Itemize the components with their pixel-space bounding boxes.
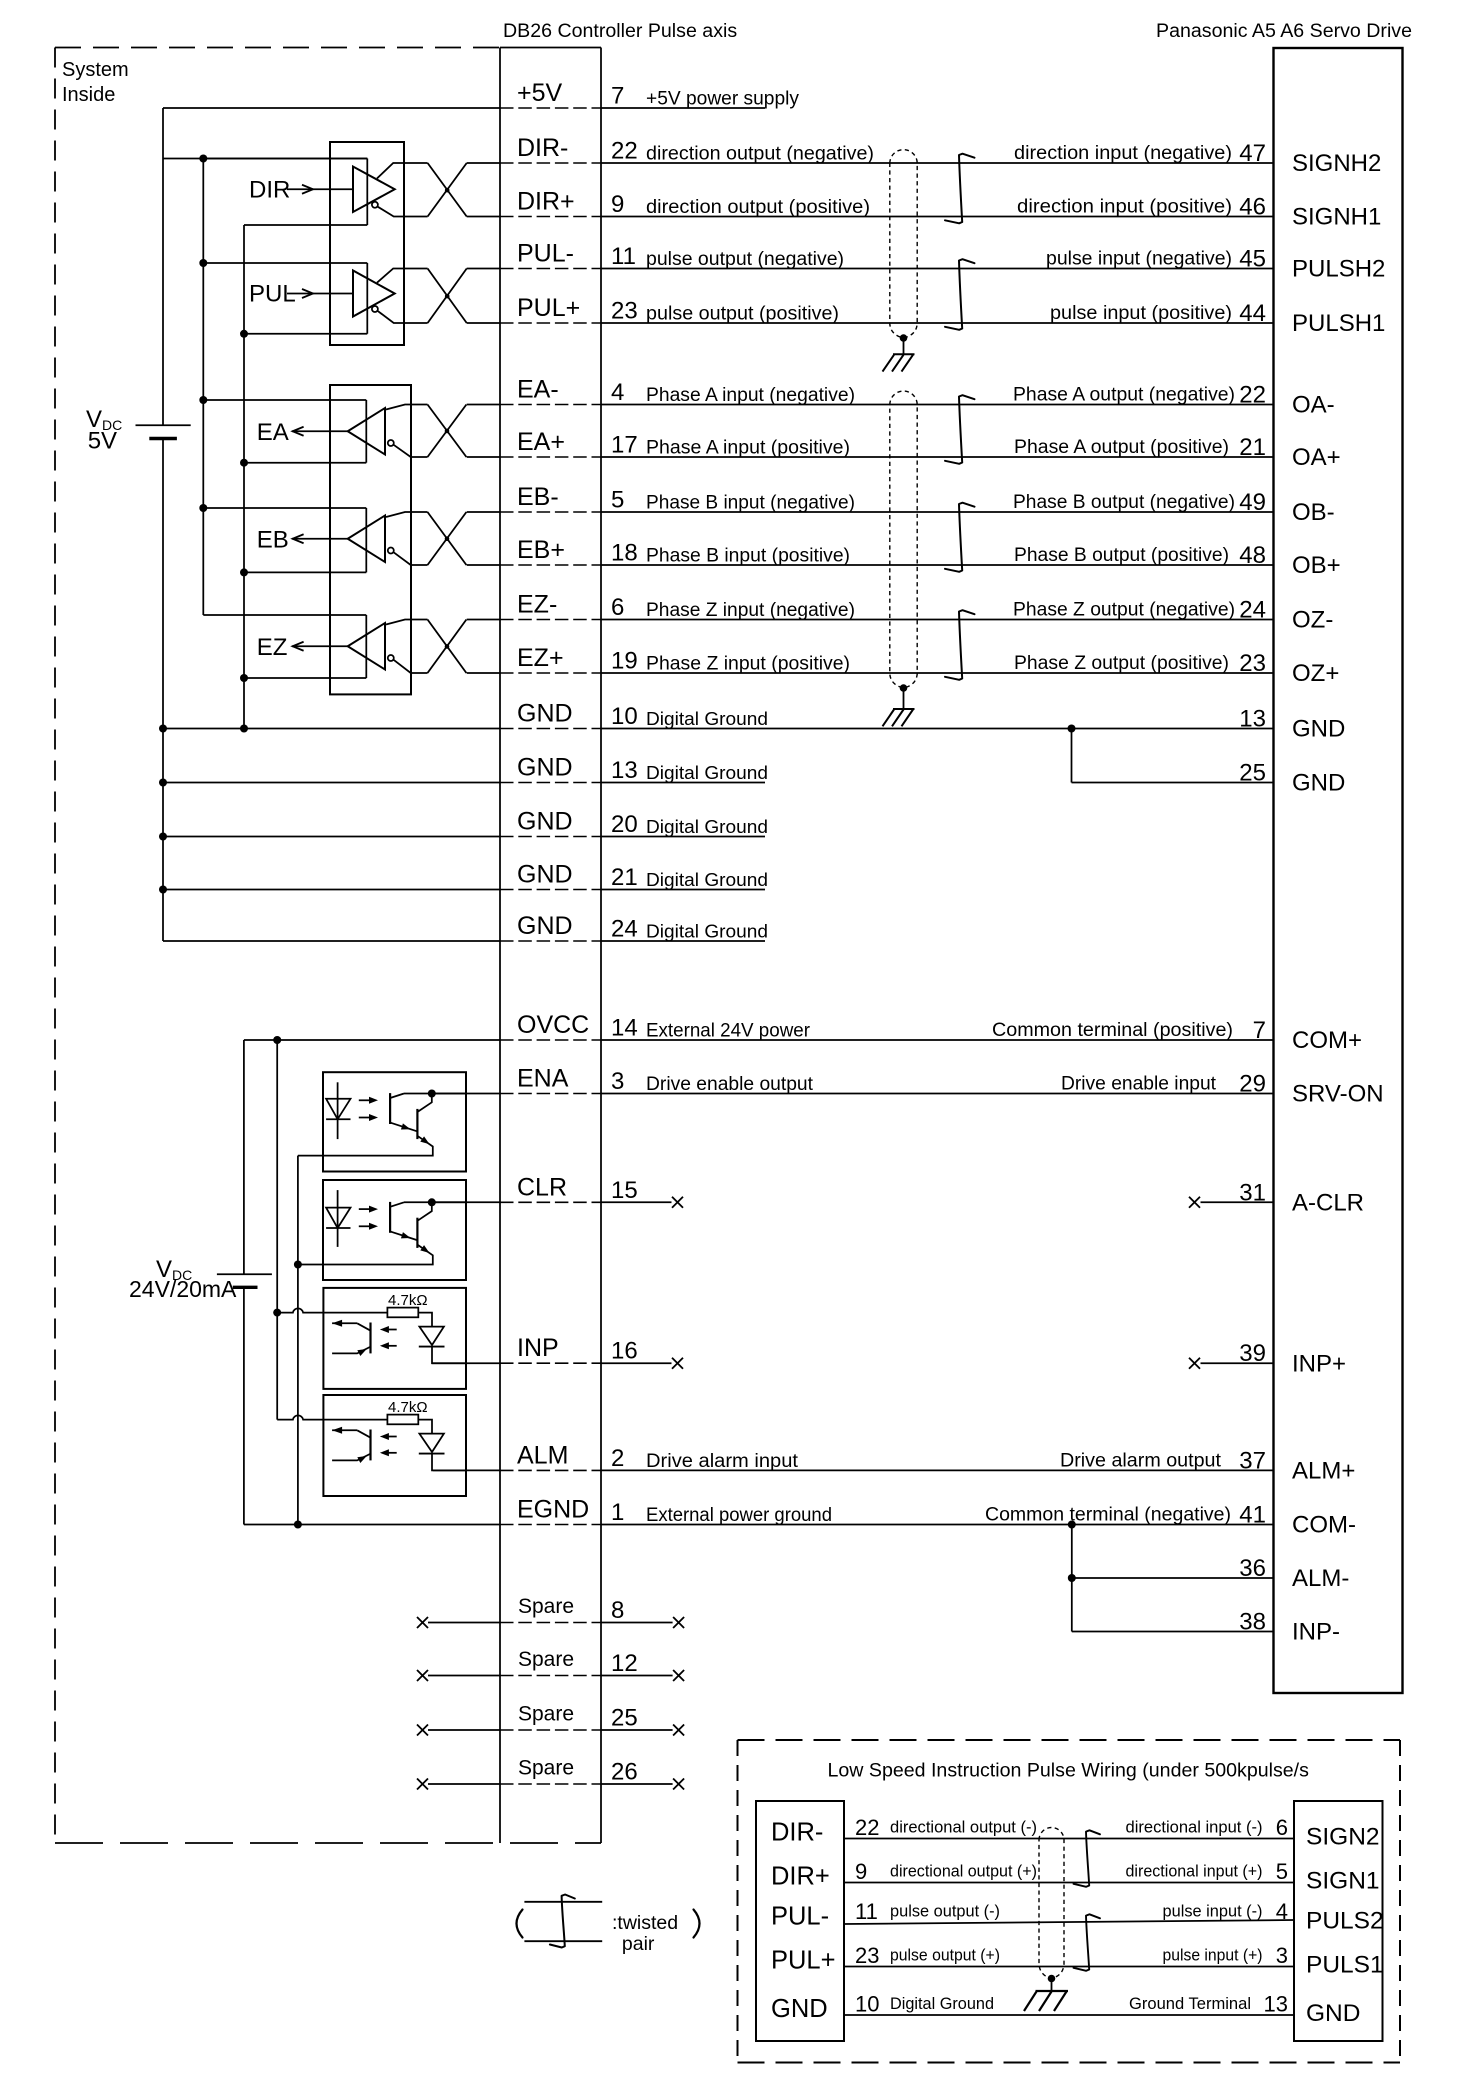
svg-text:24: 24 bbox=[611, 916, 638, 943]
wire DIR+ row y=216.5 bbox=[467, 216, 500, 218]
svg-text:6: 6 bbox=[611, 594, 624, 621]
svg-text:7: 7 bbox=[1253, 1017, 1266, 1044]
system-inside dashed box bottom edge bbox=[55, 1842, 601, 1844]
wire INP- pin 38 jumper bbox=[1072, 1631, 1274, 1633]
svg-text:Drive alarm output: Drive alarm output bbox=[1060, 1450, 1222, 1471]
svg-text:DIR+: DIR+ bbox=[771, 1863, 830, 1891]
svg-text:10: 10 bbox=[611, 703, 638, 730]
svg-text:38: 38 bbox=[1239, 1609, 1266, 1636]
driver cell DIR bottom wire bbox=[244, 224, 367, 226]
shield capsule DIR/PUL pairs bbox=[890, 150, 917, 338]
low speed chassis ground bbox=[1024, 1991, 1068, 2011]
svg-text:OA-: OA- bbox=[1292, 392, 1335, 419]
svg-text:GND: GND bbox=[517, 808, 573, 836]
svg-text:GND: GND bbox=[1292, 770, 1345, 797]
svg-text:20: 20 bbox=[611, 811, 638, 838]
diode ALM bbox=[419, 1434, 444, 1452]
wire Spare pin 26 bbox=[428, 1783, 500, 1785]
svg-text:23: 23 bbox=[611, 298, 638, 325]
optocoupler ENA box bbox=[323, 1072, 466, 1171]
svg-text:pulse output (positive): pulse output (positive) bbox=[646, 304, 839, 325]
wire EZ+ row y=673.0 bbox=[467, 672, 500, 674]
x-mark Spare 12 right end bbox=[673, 1670, 684, 1681]
svg-text:49: 49 bbox=[1239, 489, 1266, 516]
receiver cell EA bottom wire bbox=[244, 462, 366, 464]
receiver EZ inverting bubble bbox=[388, 655, 394, 661]
svg-text:pulse input (-): pulse input (-) bbox=[1163, 1902, 1263, 1921]
svg-text:GND: GND bbox=[517, 754, 573, 782]
battery V2 VDC 24V positive plate bbox=[217, 1273, 272, 1275]
svg-text:COM+: COM+ bbox=[1292, 1027, 1362, 1054]
svg-text:17: 17 bbox=[611, 432, 638, 459]
junction dot rail3 EZ bottom bbox=[240, 674, 248, 682]
svg-text:5: 5 bbox=[611, 487, 624, 514]
line driver IC outer box bbox=[330, 142, 404, 345]
svg-text:5: 5 bbox=[1276, 1859, 1288, 1884]
vertical jumper COM- to ALM- INP- bbox=[1071, 1525, 1073, 1632]
driver DIR triangle bbox=[353, 167, 395, 213]
svg-text:GND: GND bbox=[771, 1995, 828, 2023]
svg-text:EB: EB bbox=[257, 527, 289, 554]
junction dots rail1 GND rows bbox=[159, 725, 167, 733]
svg-text:Phase Z input (positive): Phase Z input (positive) bbox=[646, 654, 850, 675]
receiver EB input crossover X bbox=[428, 512, 467, 565]
svg-text:GND: GND bbox=[517, 912, 573, 940]
svg-text:PULS1: PULS1 bbox=[1306, 1952, 1384, 1979]
svg-text:37: 37 bbox=[1239, 1447, 1266, 1474]
legend close paren bbox=[694, 1910, 700, 1938]
svg-text:EA-: EA- bbox=[517, 376, 559, 404]
driver PUL non-inverting output wire bbox=[377, 269, 428, 283]
twisted-pair mark DIR pair bbox=[945, 154, 975, 224]
optocoupler CLR collector output wire and dot bbox=[404, 1201, 466, 1203]
svg-text:PUL-: PUL- bbox=[517, 240, 574, 268]
x-mark Spare 8 left end bbox=[417, 1617, 428, 1628]
optocoupler CLR transistor Q1 bbox=[389, 1202, 391, 1233]
svg-text:GND: GND bbox=[517, 700, 573, 728]
svg-text:EZ+: EZ+ bbox=[517, 644, 564, 672]
wire GND pin 20 bbox=[163, 836, 500, 838]
receiver cell EA right edge bbox=[365, 400, 367, 463]
svg-text:External 24V power: External 24V power bbox=[646, 1021, 811, 1042]
x-mark Spare 25 left end bbox=[417, 1725, 428, 1736]
svg-text:Drive enable input: Drive enable input bbox=[1061, 1074, 1217, 1095]
twisted-pair mark EA pair bbox=[945, 395, 975, 464]
line receiver IC outer box bbox=[330, 385, 411, 694]
svg-text:pulse output (negative): pulse output (negative) bbox=[646, 249, 844, 270]
x-mark A-CLR open end bbox=[1189, 1197, 1200, 1208]
svg-text:Phase Z output (negative): Phase Z output (negative) bbox=[1013, 600, 1235, 621]
optocoupler ENA light arrows bbox=[359, 1099, 371, 1101]
svg-text:4: 4 bbox=[1276, 1899, 1288, 1924]
svg-text:ENA: ENA bbox=[517, 1065, 569, 1093]
driver PUL triangle bbox=[353, 271, 395, 317]
svg-text:CLR: CLR bbox=[517, 1173, 567, 1201]
svg-text:directional input (+): directional input (+) bbox=[1126, 1862, 1263, 1881]
system-inside dashed box top edge bbox=[55, 47, 500, 49]
svg-text:Phase A input (positive): Phase A input (positive) bbox=[646, 438, 850, 459]
svg-text:10: 10 bbox=[855, 1992, 879, 2017]
svg-text:pulse input (+): pulse input (+) bbox=[1163, 1946, 1263, 1965]
svg-text:EZ-: EZ- bbox=[517, 591, 557, 619]
svg-text:23: 23 bbox=[1239, 650, 1266, 677]
svg-text:11: 11 bbox=[611, 243, 636, 270]
wire INP pin 16 (unconnected) bbox=[432, 1362, 500, 1364]
rail +5V vertical (rail1) bbox=[162, 108, 164, 425]
chassis ground shield EA/EB/EZ bbox=[883, 709, 915, 726]
low speed twisted-pair mark PULS pair bbox=[1074, 1914, 1101, 1971]
svg-text:2: 2 bbox=[611, 1445, 624, 1472]
shield drain stem EA/EB/EZ bbox=[903, 688, 905, 709]
wire EB+ row y=565.0 bbox=[467, 564, 500, 566]
wire +5V from rail to connector bbox=[163, 107, 500, 109]
svg-text:Phase B output (positive): Phase B output (positive) bbox=[1014, 545, 1229, 566]
junction dot rail2 EB top bbox=[199, 504, 207, 512]
receiver EA inverting input wire bbox=[393, 445, 427, 457]
svg-text:48: 48 bbox=[1239, 542, 1266, 569]
wire ALM to ALM+ bbox=[433, 1469, 500, 1471]
svg-text:Inside: Inside bbox=[62, 84, 115, 106]
svg-text:OZ-: OZ- bbox=[1292, 607, 1333, 634]
wire resistor to diode ALM bbox=[418, 1420, 432, 1434]
receiver EA input crossover X bbox=[428, 405, 467, 458]
receiver cell EZ right edge bbox=[365, 615, 367, 678]
wire GND pin 24 bbox=[163, 940, 500, 942]
svg-text:pulse input (positive): pulse input (positive) bbox=[1050, 303, 1232, 324]
svg-text:SIGNH1: SIGNH1 bbox=[1292, 204, 1381, 231]
receiver EA inverting bubble bbox=[388, 440, 394, 446]
battery V1 VDC 5V negative plate bbox=[149, 437, 177, 440]
svg-text:pulse input (negative): pulse input (negative) bbox=[1046, 249, 1232, 270]
x-mark Spare 8 right end bbox=[673, 1617, 684, 1628]
svg-text:3: 3 bbox=[611, 1068, 624, 1095]
optocoupler CLR box bbox=[323, 1180, 466, 1280]
wire Spare pin 12 bbox=[428, 1675, 500, 1677]
low speed shield capsule bbox=[1039, 1828, 1064, 1979]
optocoupler ENA transistor Q1 bbox=[389, 1093, 391, 1124]
optocoupler CLR light arrows bbox=[359, 1208, 371, 1210]
svg-text:Spare: Spare bbox=[518, 1595, 574, 1618]
receiver cell EZ bottom wire bbox=[244, 677, 366, 679]
svg-text:21: 21 bbox=[1239, 434, 1266, 461]
svg-text:INP+: INP+ bbox=[1292, 1350, 1346, 1377]
svg-text:11: 11 bbox=[855, 1899, 878, 1924]
junction dot rail2 PUL top bbox=[199, 259, 207, 267]
junction dot rail B at CLR emitter bbox=[294, 1261, 302, 1269]
svg-text:36: 36 bbox=[1239, 1555, 1266, 1582]
receiver EB non-inverting input wire bbox=[386, 512, 428, 517]
wire EB- row y=512.0 bbox=[467, 511, 500, 513]
battery V2 VDC 24V negative plate bbox=[233, 1286, 258, 1289]
svg-text:External power ground: External power ground bbox=[646, 1505, 832, 1526]
svg-text:EZ: EZ bbox=[257, 634, 288, 661]
svg-text:ALM+: ALM+ bbox=[1292, 1458, 1355, 1485]
svg-text:DIR-: DIR- bbox=[517, 134, 568, 162]
svg-text:Phase Z input (negative): Phase Z input (negative) bbox=[646, 600, 855, 621]
svg-text:PUL+: PUL+ bbox=[517, 294, 580, 322]
low speed drive box bbox=[1294, 1801, 1383, 2041]
driver PUL inverting output wire bbox=[378, 311, 428, 323]
receiver EB inverting bubble bbox=[388, 548, 394, 554]
svg-text:A-CLR: A-CLR bbox=[1292, 1190, 1364, 1217]
light arrows INP bbox=[385, 1329, 397, 1331]
svg-text:+5V power supply: +5V power supply bbox=[646, 89, 799, 110]
svg-text:22: 22 bbox=[855, 1815, 879, 1840]
DB26 connector column top edge bbox=[500, 47, 601, 49]
svg-text:direction input (negative): direction input (negative) bbox=[1014, 143, 1232, 164]
svg-text:System: System bbox=[62, 59, 129, 81]
svg-text:pair: pair bbox=[622, 1933, 655, 1955]
diode INP bbox=[419, 1327, 444, 1345]
receiver EA triangle bbox=[348, 408, 385, 455]
x-mark CLR open end bbox=[672, 1197, 683, 1208]
wire GND pin 10 bbox=[163, 728, 500, 730]
DB26 connector column right edge bbox=[600, 48, 602, 1844]
driver PUL inverting bubble bbox=[372, 306, 378, 312]
svg-text:4.7kΩ: 4.7kΩ bbox=[388, 1399, 428, 1416]
svg-text:25: 25 bbox=[1239, 760, 1266, 787]
driver DIR inverting output wire bbox=[378, 207, 428, 217]
phototransistor INP bbox=[369, 1323, 371, 1354]
svg-text:26: 26 bbox=[611, 1759, 638, 1786]
junction dot COM- jumper bbox=[1068, 1521, 1076, 1529]
svg-text:6: 6 bbox=[1276, 1815, 1288, 1840]
svg-text:OZ+: OZ+ bbox=[1292, 660, 1339, 687]
svg-text:19: 19 bbox=[611, 648, 638, 675]
rail3 vertical driver/receiver ground bbox=[243, 225, 245, 729]
optocoupler ENA transistor Q2 bbox=[416, 1109, 418, 1139]
svg-text:Phase A output (positive): Phase A output (positive) bbox=[1014, 437, 1229, 458]
junction dot rail3 PUL bottom bbox=[240, 330, 248, 338]
svg-text:OB-: OB- bbox=[1292, 499, 1335, 526]
wire PUL- row y=268.5 bbox=[467, 268, 500, 270]
wire PUL+ row y=323.0 bbox=[467, 322, 500, 324]
twisted-pair mark PUL pair bbox=[945, 259, 975, 330]
wire +5V dashed through connector bbox=[500, 107, 601, 109]
wire CLR pin 15 (unconnected) bbox=[432, 1201, 500, 1203]
servo GND pin 25 and jumper bbox=[1071, 729, 1073, 783]
svg-text:+5V: +5V bbox=[517, 79, 563, 107]
svg-text:OB+: OB+ bbox=[1292, 552, 1341, 579]
svg-text:Common terminal (positive): Common terminal (positive) bbox=[992, 1020, 1233, 1041]
wire +5V pin7 stub bbox=[601, 107, 765, 109]
svg-text:SIGN1: SIGN1 bbox=[1306, 1868, 1380, 1895]
svg-text:Phase A output (negative): Phase A output (negative) bbox=[1013, 385, 1235, 406]
svg-text:directional output (+): directional output (+) bbox=[890, 1862, 1037, 1881]
svg-text:31: 31 bbox=[1239, 1179, 1266, 1206]
svg-text:3: 3 bbox=[1276, 1943, 1288, 1968]
rail2 vertical +5V distribution bbox=[202, 159, 204, 616]
battery V1 VDC 5V positive plate bbox=[136, 424, 191, 426]
svg-text:Drive enable output: Drive enable output bbox=[646, 1074, 814, 1095]
svg-text:Digital Ground: Digital Ground bbox=[890, 1994, 994, 2013]
svg-text:SRV-ON: SRV-ON bbox=[1292, 1081, 1384, 1108]
rail B emitters to EGND bbox=[297, 1156, 299, 1525]
wire OVCC to COM+ bbox=[244, 1039, 500, 1041]
svg-text:Spare: Spare bbox=[518, 1648, 574, 1671]
svg-text:GND: GND bbox=[1306, 2000, 1360, 2027]
svg-text:1: 1 bbox=[611, 1499, 624, 1526]
driver cell PUL bottom wire bbox=[244, 333, 367, 335]
receiver EA non-inverting input wire bbox=[386, 405, 428, 410]
shield drain dot EA/EB/EZ bbox=[900, 684, 908, 692]
svg-text:14: 14 bbox=[611, 1015, 638, 1042]
svg-text:DIR: DIR bbox=[249, 176, 290, 203]
legend open paren bbox=[517, 1910, 523, 1938]
svg-text:direction input (positive): direction input (positive) bbox=[1017, 197, 1232, 218]
svg-text:44: 44 bbox=[1239, 300, 1266, 327]
receiver EZ triangle bbox=[348, 623, 385, 670]
svg-text:GND: GND bbox=[517, 861, 573, 889]
svg-text:Phase B input (negative): Phase B input (negative) bbox=[646, 493, 855, 514]
svg-text:24: 24 bbox=[1239, 597, 1266, 624]
junction dot rail2 EA top bbox=[199, 396, 207, 404]
wire EA+ row y=457.0 bbox=[467, 456, 500, 458]
driver DIR non-inverting output wire bbox=[377, 163, 428, 178]
wire EA- row y=404.5 bbox=[467, 404, 500, 406]
svg-text:COM-: COM- bbox=[1292, 1512, 1356, 1539]
svg-text:13: 13 bbox=[611, 757, 638, 784]
svg-text:29: 29 bbox=[1239, 1071, 1266, 1098]
wire GND pin 13 bbox=[163, 782, 500, 784]
svg-text:PUL+: PUL+ bbox=[771, 1947, 836, 1975]
svg-text:Spare: Spare bbox=[518, 1703, 574, 1726]
svg-text:SIGN2: SIGN2 bbox=[1306, 1824, 1380, 1851]
driver cell DIR top wire bbox=[203, 158, 367, 160]
svg-text:Spare: Spare bbox=[518, 1757, 574, 1780]
svg-text:PULSH2: PULSH2 bbox=[1292, 256, 1385, 283]
svg-text:Ground Terminal: Ground Terminal bbox=[1129, 1994, 1251, 2013]
wire EGND to COM- bbox=[244, 1524, 500, 1526]
receiver EZ input crossover X bbox=[428, 620, 467, 674]
phototransistor ALM bbox=[369, 1430, 371, 1461]
svg-text:8: 8 bbox=[611, 1597, 624, 1624]
x-mark Spare 25 right end bbox=[673, 1725, 684, 1736]
svg-text:41: 41 bbox=[1239, 1502, 1266, 1529]
svg-text:16: 16 bbox=[611, 1338, 638, 1365]
svg-text:PUL-: PUL- bbox=[771, 1903, 829, 1931]
svg-text:Common terminal (negative): Common terminal (negative) bbox=[985, 1505, 1231, 1526]
low speed wire DIR+ to SIGN1 bbox=[844, 1882, 1294, 1884]
svg-text:7: 7 bbox=[611, 83, 624, 110]
svg-text:25: 25 bbox=[611, 1705, 638, 1732]
svg-text:DIR+: DIR+ bbox=[517, 188, 575, 216]
receiver cell EB right edge bbox=[365, 508, 367, 572]
driver DIR output crossover X bbox=[428, 163, 467, 217]
receiver EB inverting input wire bbox=[393, 552, 427, 565]
optocoupler ENA collector output wire and dot bbox=[404, 1093, 466, 1095]
svg-text::twisted: :twisted bbox=[612, 1912, 678, 1934]
junction dot rail A at OVCC bbox=[273, 1036, 281, 1044]
wire resistor to diode INP bbox=[418, 1313, 432, 1327]
x-mark Spare 12 left end bbox=[417, 1670, 428, 1681]
light arrows ALM bbox=[385, 1436, 397, 1438]
svg-text:OVCC: OVCC bbox=[517, 1011, 589, 1039]
legend twisted pair wires bbox=[524, 1901, 602, 1903]
svg-text:ALM: ALM bbox=[517, 1441, 568, 1469]
svg-text:Drive alarm input: Drive alarm input bbox=[646, 1451, 799, 1472]
svg-text:Digital Ground: Digital Ground bbox=[646, 762, 768, 783]
svg-text:EB-: EB- bbox=[517, 483, 559, 511]
optocoupler CLR LED bbox=[337, 1190, 339, 1247]
rail 24V vertical bbox=[243, 1040, 245, 1274]
shield drain dot DIR/PUL bbox=[900, 334, 908, 342]
svg-text:Phase B input (positive): Phase B input (positive) bbox=[646, 546, 850, 567]
twisted-pair mark EB pair bbox=[945, 503, 975, 572]
wire ALM- pin 36 jumper bbox=[1072, 1577, 1274, 1579]
svg-text:INP-: INP- bbox=[1292, 1619, 1340, 1646]
receiver cell EZ top wire bbox=[203, 614, 366, 616]
driver cell PUL right edge bbox=[366, 263, 368, 334]
svg-text:12: 12 bbox=[611, 1650, 638, 1677]
driver DIR inverting bubble bbox=[372, 202, 378, 208]
svg-text:pulse output (-): pulse output (-) bbox=[890, 1902, 1000, 1921]
svg-text:directional output (-): directional output (-) bbox=[890, 1818, 1037, 1837]
svg-text:EA+: EA+ bbox=[517, 428, 565, 456]
svg-text:39: 39 bbox=[1239, 1340, 1266, 1367]
svg-text:Low Speed Instruction Pulse Wi: Low Speed Instruction Pulse Wiring (unde… bbox=[828, 1760, 1310, 1782]
optocoupler ALM input wire with hop over rail B bbox=[277, 1415, 387, 1419]
DB26 connector column left edge bbox=[499, 48, 501, 1844]
svg-text:Phase A input (negative): Phase A input (negative) bbox=[646, 385, 855, 406]
svg-text:22: 22 bbox=[611, 138, 638, 165]
low speed wire PUL- to PULS2 bbox=[844, 1920, 1294, 1924]
svg-text:pulse output (+): pulse output (+) bbox=[890, 1946, 1000, 1965]
low speed twisted-pair mark SIGN pair bbox=[1074, 1830, 1101, 1887]
svg-text:EB+: EB+ bbox=[517, 536, 565, 564]
svg-text:DIR-: DIR- bbox=[771, 1819, 823, 1847]
svg-text:22: 22 bbox=[1239, 382, 1266, 409]
svg-text:13: 13 bbox=[1264, 1992, 1288, 2017]
low speed wire PUL+ to PULS1 bbox=[844, 1966, 1294, 1968]
resistor 4.7k ALM bbox=[387, 1415, 418, 1425]
svg-text:Digital Ground: Digital Ground bbox=[646, 708, 768, 729]
svg-text:15: 15 bbox=[611, 1177, 638, 1204]
optocoupler ALM box bbox=[323, 1395, 466, 1496]
receiver cell EA top wire bbox=[203, 399, 366, 401]
wire A-CLR pin 31 (unconnected) bbox=[1201, 1201, 1274, 1203]
receiver EZ non-inverting input wire bbox=[386, 620, 428, 625]
driver cell PUL top wire bbox=[203, 262, 367, 264]
svg-text:46: 46 bbox=[1239, 194, 1266, 221]
junction dot rail B at EGND bbox=[294, 1521, 302, 1529]
chassis ground shield DIR/PUL bbox=[883, 354, 915, 371]
driver PUL output crossover X bbox=[428, 269, 467, 324]
junction dot rail2 top bbox=[199, 155, 207, 163]
svg-text:Digital Ground: Digital Ground bbox=[646, 869, 768, 890]
x-mark Spare 26 left end bbox=[417, 1779, 428, 1790]
low speed wire GND to GND bbox=[844, 2014, 1294, 2016]
optocoupler ENA LED bbox=[337, 1082, 339, 1139]
svg-text:Phase Z output (positive): Phase Z output (positive) bbox=[1014, 653, 1229, 674]
wire diode to output INP bbox=[432, 1347, 466, 1364]
svg-text:EA: EA bbox=[257, 419, 289, 446]
wire ENA to SRV-ON bbox=[432, 1093, 500, 1095]
svg-text:Digital Ground: Digital Ground bbox=[646, 816, 768, 837]
junction dot rail A at INP wire bbox=[273, 1309, 281, 1317]
x-mark INP+ open end bbox=[1189, 1358, 1200, 1369]
junction dot rail3 EB bottom bbox=[240, 568, 248, 576]
rail A OVCC to opto LEDs bbox=[276, 1040, 278, 1313]
svg-text:4: 4 bbox=[611, 379, 624, 406]
wire INP+ pin 39 (unconnected) bbox=[1201, 1362, 1274, 1364]
receiver EZ inverting input wire bbox=[393, 660, 427, 673]
svg-text:Panasonic A5 A6 Servo Drive: Panasonic A5 A6 Servo Drive bbox=[1156, 20, 1412, 42]
svg-text:13: 13 bbox=[1239, 706, 1266, 733]
wire diode to output ALM bbox=[432, 1454, 466, 1471]
wire Spare pin 25 bbox=[428, 1729, 500, 1731]
low speed shield stem bbox=[1051, 1979, 1053, 1992]
